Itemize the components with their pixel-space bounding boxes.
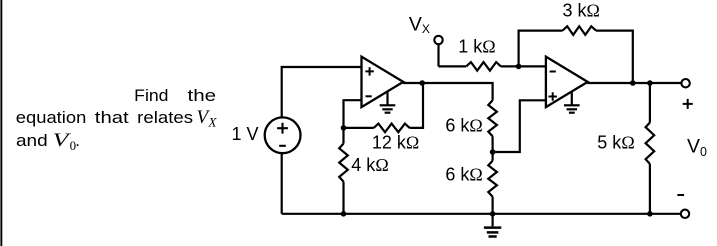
- svg-text:3 kΩ: 3 kΩ: [563, 1, 600, 21]
- svg-text:4 kΩ: 4 kΩ: [351, 155, 388, 175]
- svg-text:X: X: [208, 115, 218, 130]
- svg-text:12 kΩ: 12 kΩ: [372, 132, 419, 152]
- svg-text:5 kΩ: 5 kΩ: [597, 133, 634, 153]
- svg-text:6 kΩ: 6 kΩ: [445, 116, 482, 136]
- svg-text:.: .: [75, 131, 80, 150]
- svg-text:6 kΩ: 6 kΩ: [445, 165, 482, 185]
- svg-text:1 kΩ: 1 kΩ: [458, 37, 495, 57]
- svg-text:1 V: 1 V: [232, 124, 259, 144]
